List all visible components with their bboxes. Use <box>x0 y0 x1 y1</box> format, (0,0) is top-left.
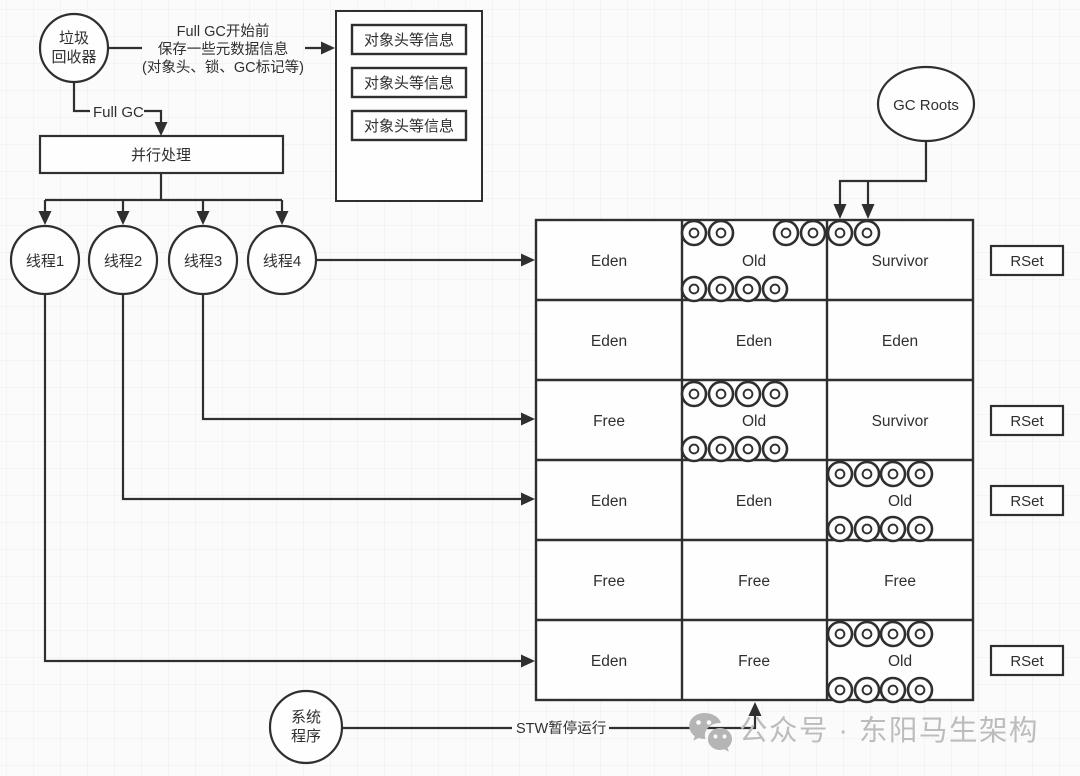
svg-text:(对象头、锁、GC标记等): (对象头、锁、GC标记等) <box>142 58 304 76</box>
svg-text:线程3: 线程3 <box>184 253 222 270</box>
svg-text:系统: 系统 <box>291 709 321 726</box>
GC Roots ellipse <box>878 67 974 141</box>
svg-text:STW暂停运行: STW暂停运行 <box>516 720 606 737</box>
distribution wires to threads <box>39 173 289 225</box>
thread 3 circle <box>169 226 237 294</box>
wire collector to note text <box>109 47 142 49</box>
svg-text:并行处理: 并行处理 <box>131 147 191 164</box>
svg-text:保存一些元数据信息: 保存一些元数据信息 <box>158 41 289 58</box>
svg-text:RSet: RSet <box>1010 493 1044 510</box>
object circles row6 old top <box>828 622 932 646</box>
object circles row4 old top <box>828 462 932 486</box>
svg-text:程序: 程序 <box>291 728 321 745</box>
RSet box row4 <box>991 486 1063 515</box>
svg-text:Eden: Eden <box>882 333 918 350</box>
object circles row1 survivor top <box>828 221 879 245</box>
object header info box 3 <box>352 111 466 140</box>
wires GC Roots to survivor objects <box>834 141 927 219</box>
object header info box 1 <box>352 25 466 54</box>
svg-text:Full GC: Full GC <box>93 104 144 121</box>
svg-text:Eden: Eden <box>591 493 627 510</box>
svg-text:Old: Old <box>888 493 912 510</box>
svg-text:对象头等信息: 对象头等信息 <box>364 31 454 49</box>
svg-text:RSet: RSet <box>1010 413 1044 430</box>
wire thread4 to heap row1 <box>316 254 535 267</box>
heap region grid <box>536 220 973 700</box>
watermark wechat icon <box>689 713 732 752</box>
parallel processing box <box>40 136 283 173</box>
RSet box row6 <box>991 646 1063 675</box>
object circles row3 old top <box>682 382 787 406</box>
svg-text:Free: Free <box>593 413 625 430</box>
svg-text:Free: Free <box>884 573 916 590</box>
watermark text <box>739 715 1039 747</box>
wire thread3 to heap row3 <box>203 294 535 426</box>
svg-text:Survivor: Survivor <box>872 413 929 430</box>
object circles row4 old bottom <box>828 517 932 541</box>
svg-text:Old: Old <box>742 413 766 430</box>
svg-text:RSet: RSet <box>1010 253 1044 270</box>
system program circle <box>270 691 342 763</box>
svg-text:GC Roots: GC Roots <box>893 97 959 114</box>
svg-text:垃圾: 垃圾 <box>59 30 89 47</box>
wire STW from system program to heap with label <box>342 702 762 737</box>
object circles row6 old bottom <box>828 678 932 702</box>
svg-text:Eden: Eden <box>591 653 627 670</box>
wire thread2 to heap row4 <box>123 294 535 506</box>
wire collector to parallel box with Full GC label <box>74 82 168 136</box>
svg-text:线程1: 线程1 <box>26 253 64 270</box>
svg-text:RSet: RSet <box>1010 653 1044 670</box>
svg-text:Free: Free <box>738 573 770 590</box>
thread 1 circle <box>11 226 79 294</box>
svg-text:Old: Old <box>742 253 766 270</box>
svg-text:Eden: Eden <box>591 253 627 270</box>
wire thread1 to heap row6 <box>45 294 535 668</box>
svg-text:对象头等信息: 对象头等信息 <box>364 117 454 135</box>
svg-text:Eden: Eden <box>736 493 772 510</box>
object header info box 2 <box>352 68 466 97</box>
svg-text:线程2: 线程2 <box>104 253 142 270</box>
svg-text:公众号 · 东阳马生架构: 公众号 · 东阳马生架构 <box>739 715 1039 747</box>
metadata container box <box>336 11 482 201</box>
svg-text:回收器: 回收器 <box>51 49 96 66</box>
object circles row1 old top <box>682 221 825 245</box>
heap cell labels <box>591 253 929 670</box>
svg-text:Eden: Eden <box>736 333 772 350</box>
svg-text:Free: Free <box>738 653 770 670</box>
svg-text:Survivor: Survivor <box>872 253 929 270</box>
object circles row1 old bottom <box>682 277 787 301</box>
svg-text:Old: Old <box>888 653 912 670</box>
garbage collector circle <box>40 14 108 82</box>
thread 4 circle <box>248 226 316 294</box>
RSet box row3 <box>991 406 1063 435</box>
object circles row3 old bottom <box>682 437 787 461</box>
svg-text:Full GC开始前: Full GC开始前 <box>177 23 270 40</box>
svg-text:线程4: 线程4 <box>263 253 301 270</box>
note text Full GC <box>142 23 304 76</box>
arrow note to metadata box <box>305 42 335 55</box>
svg-text:Eden: Eden <box>591 333 627 350</box>
svg-text:Free: Free <box>593 573 625 590</box>
svg-text:对象头等信息: 对象头等信息 <box>364 74 454 92</box>
RSet box row1 <box>991 246 1063 275</box>
thread 2 circle <box>89 226 157 294</box>
